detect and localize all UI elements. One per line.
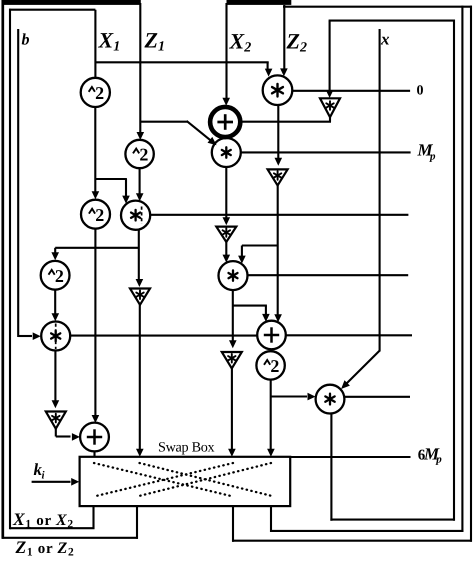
label 0 — [417, 84, 424, 99]
wire: T3 output into M5 — [223, 241, 231, 263]
wire: x column diagonal into M6 — [341, 351, 380, 389]
multiplier M4 — [41, 322, 70, 351]
wire: S5 branch into multiplier M6 — [271, 393, 316, 401]
wire: T1 output to adder A1 — [242, 116, 331, 122]
adder A4 — [80, 423, 109, 452]
wire: X1 branch into multiplier M3 — [95, 179, 130, 204]
squarer S1 — [81, 78, 110, 107]
svg-text:X1: X1 — [98, 28, 121, 55]
reducer triangle T3 — [216, 227, 236, 242]
svg-text:2: 2 — [55, 266, 64, 286]
wire: A2 output into squarer S5 — [270, 349, 272, 351]
wire: M1 output to 0-line — [292, 90, 410, 92]
label Swap Box — [158, 440, 215, 456]
wire: T6 output to swap box — [136, 304, 144, 457]
reducer triangle T4 — [222, 352, 242, 368]
svg-text:2: 2 — [270, 356, 279, 376]
svg-text:Z2: Z2 — [286, 29, 307, 56]
wire: S5 output down to swap box — [267, 380, 275, 457]
wire: X2 column — [222, 3, 230, 106]
wire: T5 output into adder A4 — [56, 428, 80, 441]
wire: Z1 column — [137, 3, 145, 140]
reducer triangle T2 — [268, 169, 288, 185]
swap box — [80, 457, 291, 506]
wire: M5 output to bus line — [248, 274, 409, 276]
wire: M2 output to Mp-line — [241, 151, 411, 153]
svg-text:Z1: Z1 — [144, 28, 165, 55]
wire: X1 branch to multiplier M1 — [95, 62, 272, 76]
reducer triangle T1 — [320, 98, 340, 117]
wire: M3 output to bus line — [150, 214, 408, 216]
label b — [22, 31, 30, 48]
svg-text:Z1 or Z2: Z1 or Z2 — [15, 537, 75, 557]
svg-text:2: 2 — [95, 205, 104, 225]
node b: input column — [17, 29, 19, 337]
wire: M1 output down to reducer T2 — [275, 105, 283, 166]
wire: Z2 column — [280, 5, 288, 76]
wire: M3 output down to squarer S4 and reducer T6 — [51, 230, 143, 287]
svg-text:p: p — [429, 151, 436, 163]
wire: X1-or-X2 feedback loop (swap box to top-left) — [9, 9, 95, 530]
reducer triangle T6 — [130, 289, 150, 305]
label Z2 — [286, 29, 307, 56]
wire: Z1-or-Z2 feedback loop (swap box around outer left) — [2, 0, 141, 539]
adder A1 — [210, 107, 240, 137]
wire: T2 branch into multiplier M5 — [238, 246, 278, 264]
wire: T2 output down to adder A2 — [274, 184, 282, 322]
multiplier M6 — [316, 385, 345, 414]
svg-text:b: b — [22, 31, 30, 48]
wire: M2 output down to reducer T3 — [223, 167, 231, 225]
label Z1 or Z2 — [15, 537, 75, 559]
svg-text:0: 0 — [417, 84, 424, 99]
svg-text:X1 or X2: X1 or X2 — [12, 509, 74, 531]
wire: input to reducer T1 — [326, 21, 334, 98]
wire: M5 output down to reducer T4 and branch to adder A2 — [229, 290, 270, 348]
wire: b input into M4 — [18, 332, 41, 340]
wire: feedback loop bottom-right to X2 (outer right) — [227, 0, 473, 542]
wire: Z1 branch diagonal into M2 — [140, 121, 216, 145]
adder A2 — [257, 321, 286, 350]
wire: X1 column — [94, 10, 96, 79]
wire: 6Mp line — [290, 456, 411, 458]
svg-text:x: x — [380, 29, 390, 48]
wire: T4 output to swap box — [228, 367, 236, 457]
squarer S3 — [81, 200, 110, 229]
label X2 — [229, 29, 252, 56]
wire: x column — [379, 29, 381, 352]
squarer S2 — [125, 140, 153, 168]
wire: S3 output down to adder A4 — [92, 229, 100, 423]
label 6Mp — [418, 444, 442, 465]
wire: ki control input to swap box — [32, 478, 80, 486]
svg-text:2: 2 — [139, 145, 148, 165]
wire: multiplier M6 output loop to reducer triangle T1 (innermost right) — [329, 20, 455, 521]
squarer S4 — [41, 261, 70, 290]
multiplier M3 — [121, 201, 150, 230]
svg-text:i: i — [42, 470, 46, 482]
wire: M6 output right bus — [344, 396, 410, 398]
swap box crossover dotted wires — [94, 463, 272, 496]
multiplier M1 — [263, 75, 293, 105]
label Z1 — [144, 28, 165, 55]
wire: feedback loop to Z2 (inner right) — [270, 6, 472, 532]
wire: S2 output into M3 — [136, 168, 144, 201]
svg-text:p: p — [435, 453, 442, 465]
reducer triangle T5 — [46, 412, 66, 429]
wire: S1 output down to squarer S3 — [92, 107, 100, 199]
label ki — [34, 460, 46, 482]
label X1 — [98, 28, 121, 55]
wire: M4 output down to reducer T5 — [52, 351, 60, 409]
multiplier M2 — [212, 138, 241, 167]
multiplier M5 — [219, 261, 248, 290]
wire: S4 output into M4 — [52, 290, 60, 322]
wire: A2 bus line right segment — [286, 334, 412, 336]
svg-text:2: 2 — [95, 83, 104, 103]
squarer S5 — [256, 351, 284, 379]
wire: M4 output long bus to adder A2 — [70, 335, 257, 337]
label Mp — [417, 141, 437, 163]
wire: A4 output to swap box — [93, 451, 95, 457]
label X1 or X2 — [12, 509, 74, 531]
label x — [380, 29, 390, 48]
svg-text:Swap Box: Swap Box — [158, 440, 215, 456]
svg-text:X2: X2 — [229, 29, 252, 56]
